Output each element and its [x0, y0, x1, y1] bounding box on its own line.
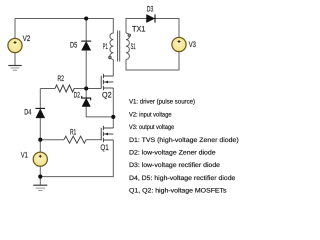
svg-text:D3: low-voltage rectifier diod: D3: low-voltage rectifier diode — [129, 162, 220, 169]
svg-text:Q1, Q2: high-voltage MOSFETs: Q1, Q2: high-voltage MOSFETs — [129, 188, 227, 195]
transformer TX1 — [110, 31, 129, 62]
wire D5 branch lower — [85, 50, 87, 88]
zener diode D2 — [82, 96, 91, 107]
svg-text:V1: V1 — [21, 151, 29, 160]
phase dot primary — [109, 56, 112, 59]
svg-text:S1: S1 — [131, 42, 136, 51]
MOSFET Q1 — [101, 126, 113, 142]
core lines — [117, 31, 119, 62]
MOSFET Q2 — [101, 74, 113, 90]
wire R1 right to Q1 gate — [86, 139, 101, 141]
wire primary bottom to Q2 drain — [112, 60, 114, 77]
svg-text:V3: V3 — [189, 40, 197, 49]
svg-text:D1: TVS (high-voltage Zener di: D1: TVS (high-voltage Zener diode) — [129, 137, 239, 144]
wire D3 to V3 — [155, 19, 179, 38]
svg-text:V2: V2 — [23, 34, 31, 43]
phase dot secondary — [128, 34, 131, 37]
svg-text:D2: low-voltage Zener diode: D2: low-voltage Zener diode — [129, 150, 216, 157]
resistor R1 — [64, 136, 86, 143]
wire R1 left — [40, 139, 64, 141]
source V3 — [172, 37, 186, 51]
svg-text:V2: input voltage: V2: input voltage — [129, 111, 172, 118]
junction node: R2 / D5 / D2 / Q2 gate — [84, 86, 88, 90]
junction node: V1 negative / ground / return — [38, 175, 42, 179]
wire Q2 source to Q1 drain — [112, 88, 114, 128]
wire R2 corner down to D4 — [39, 89, 41, 109]
ground under V1 — [33, 185, 47, 190]
secondary winding S1 — [126, 33, 129, 60]
svg-text:R2: R2 — [58, 74, 65, 83]
wire R2 right to Q2 gate — [74, 88, 101, 90]
junction node: top rail / D5 cathode — [84, 16, 88, 20]
primary winding P1 — [110, 33, 113, 60]
diode D3 — [147, 14, 156, 22]
wire bottom return to Q1 source — [40, 140, 113, 177]
svg-text:V1: driver (pulse source): V1: driver (pulse source) — [129, 99, 195, 106]
svg-text:R1: R1 — [70, 127, 77, 136]
wire ground stem V1 — [39, 177, 41, 186]
svg-text:D5: D5 — [70, 40, 78, 49]
wire top rail V2 to primary — [15, 19, 113, 34]
wire secondary bottom to V3 bottom — [126, 52, 179, 71]
source V2 — [8, 38, 22, 52]
wire V2 to ground — [14, 53, 16, 66]
wire D2 top link — [85, 89, 87, 99]
svg-text:Q2: Q2 — [102, 91, 112, 100]
wire D5 branch upper — [85, 19, 87, 42]
svg-text:P1: P1 — [103, 42, 108, 51]
wire V2 stem — [14, 19, 16, 39]
svg-text:D4: D4 — [24, 108, 32, 117]
svg-text:Q1: Q1 — [100, 143, 109, 152]
junction node: V1 / D4 / R1 — [38, 138, 42, 142]
wire D4 to V1 node — [39, 118, 41, 152]
resistor R2 — [55, 85, 74, 92]
source V1 — [33, 152, 47, 166]
svg-text:D4, D5: high-voltage rectifier: D4, D5: high-voltage rectifier diode — [129, 175, 236, 182]
diode D4 — [36, 108, 46, 118]
wire secondary top to D3 — [126, 19, 147, 34]
svg-text:V3: output voltage: V3: output voltage — [129, 124, 175, 131]
svg-text:D3: D3 — [147, 5, 154, 14]
wire D2 anode to source node — [86, 107, 113, 117]
wire R2 left — [40, 88, 55, 90]
svg-text:D2: D2 — [74, 90, 81, 99]
diode D5 — [81, 41, 91, 50]
svg-text:TX1: TX1 — [132, 25, 146, 34]
junction node: D2 anode / Q2 source / Q1 drain — [111, 115, 115, 119]
ground under V2 — [8, 66, 21, 71]
wire V1 to ground node — [39, 166, 41, 176]
